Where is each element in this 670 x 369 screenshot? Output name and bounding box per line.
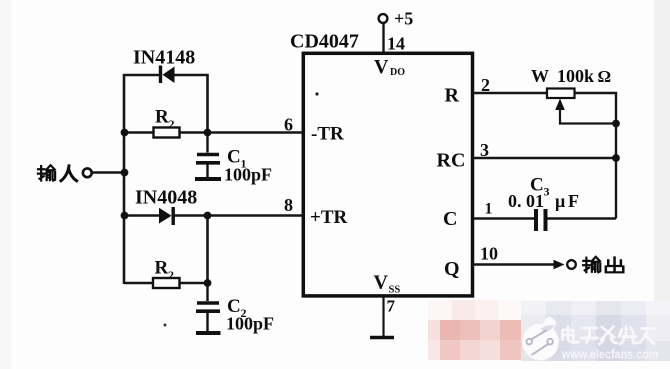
svg-text:μ: μ: [555, 191, 565, 211]
+5 supply terminal: [379, 14, 388, 23]
node: pin8/mid rail: [204, 212, 212, 220]
svg-text:CD4047: CD4047: [290, 31, 359, 53]
wire: bottom R2 net horizontal: [124, 282, 154, 285]
svg-text:Q: Q: [444, 258, 460, 280]
svg-text:14: 14: [387, 34, 405, 54]
svg-text:F: F: [568, 191, 579, 211]
watermark pink mosaic block: [428, 300, 521, 360]
wire: pin 8 net horizontal: [124, 214, 160, 217]
node: R2b/C2: [204, 279, 212, 287]
svg-text:8: 8: [284, 195, 293, 215]
svg-text:0. 01: 0. 01: [508, 191, 544, 211]
wire: pin 7 stub: [382, 297, 384, 336]
label VDD: [374, 56, 405, 78]
IC U1 CD4047 box: [303, 53, 472, 296]
capacitor C2: [196, 283, 220, 331]
wire: pot right to rail: [575, 93, 617, 219]
svg-text:V: V: [374, 272, 389, 294]
watermark lavender mosaic block: [521, 301, 670, 361]
svg-text:+TR: +TR: [310, 207, 347, 228]
svg-text:2: 2: [481, 75, 490, 95]
svg-text:10: 10: [480, 244, 498, 264]
wire: input stub: [92, 171, 125, 174]
wire: left vertical rail: [123, 74, 126, 284]
label R2 (bottom): [155, 258, 175, 283]
right scan gutter: [654, 0, 670, 302]
input terminal circle: [83, 168, 92, 177]
wire: C3 right to rail: [548, 217, 617, 219]
svg-text:100pF: 100pF: [224, 165, 272, 185]
svg-text:+5: +5: [394, 9, 413, 29]
label VSS: [374, 272, 401, 296]
capacitor C1: [196, 133, 220, 177]
potentiometer W 100k body: [547, 89, 575, 99]
elecfans logo: [522, 316, 558, 360]
svg-text:1: 1: [485, 201, 493, 218]
svg-text:3: 3: [544, 185, 550, 199]
diode D1 IN4148 (cathode left): [159, 66, 175, 84]
svg-text:W: W: [531, 66, 549, 86]
label 输入 (input): [38, 165, 77, 181]
wire: top loop horizontal (IN4148 branch): [123, 74, 160, 77]
wire: mid vertical between diode2 node and R2b node: [206, 216, 209, 285]
svg-text:R: R: [445, 85, 460, 107]
node: pin8/left rail: [121, 212, 129, 220]
svg-text:Ω: Ω: [598, 67, 612, 86]
resistor R2 (top): [154, 128, 180, 138]
speck near IC left: [315, 92, 318, 95]
node: pin6/left rail: [121, 129, 129, 137]
svg-text:2: 2: [168, 268, 174, 282]
junction dots: [121, 129, 212, 287]
svg-text:6: 6: [284, 115, 293, 135]
resistor R2 (bottom): [153, 278, 180, 288]
svg-text:www.elecfans.com: www.elecfans.com: [561, 348, 658, 362]
label C3: [530, 175, 550, 199]
wire: pin 14 stub: [382, 23, 384, 52]
svg-text:RC: RC: [437, 150, 466, 172]
svg-text:R: R: [155, 258, 169, 279]
watermark text 电子发烧友 (stylized): [563, 327, 655, 345]
wire: pin 3 net RC: [474, 157, 616, 159]
diode D2 IN4048 (anode left, points right): [159, 207, 175, 225]
ground bar of C1: [195, 177, 221, 181]
left scan gutter: [0, 0, 11, 369]
svg-text:3: 3: [480, 140, 489, 160]
svg-text:R: R: [155, 107, 169, 128]
ground bar pin7: [370, 336, 394, 340]
label 输出 (output): [583, 257, 623, 272]
ground bar of C2: [196, 331, 221, 335]
speck bottom left: [164, 324, 167, 327]
wire: right branch vertical (top): [206, 74, 209, 133]
node: wiper/rail: [612, 120, 620, 128]
pot wiper arrow: [555, 99, 616, 124]
output arrowhead: [554, 260, 565, 270]
svg-text:100pF: 100pF: [226, 314, 274, 334]
node: RC/rail: [612, 154, 620, 162]
svg-text:7: 7: [387, 297, 396, 316]
wire: pin 6 net horizontal: [124, 131, 154, 134]
svg-text:2: 2: [169, 117, 175, 131]
capacitor C3 plates: [536, 209, 546, 231]
label R2 (top): [155, 107, 175, 132]
wire: pin 1 net C: [474, 217, 534, 219]
svg-text:100k: 100k: [557, 66, 594, 86]
svg-text:IN4048: IN4048: [135, 187, 197, 209]
svg-text:V: V: [374, 56, 389, 78]
svg-text:-TR: -TR: [311, 124, 344, 145]
svg-text:C: C: [443, 208, 457, 230]
output terminal circle: [567, 260, 576, 269]
label C1: [227, 147, 247, 171]
wire: pin 10 net Q out: [472, 263, 555, 265]
label C2: [227, 296, 247, 320]
svg-text:DO: DO: [390, 67, 405, 78]
wire: pin 2 net: [474, 92, 548, 94]
svg-text:IN4148: IN4148: [133, 47, 195, 69]
svg-text:SS: SS: [389, 285, 401, 296]
node: pin6/C1: [204, 129, 212, 137]
node: input/left rail: [121, 169, 129, 177]
